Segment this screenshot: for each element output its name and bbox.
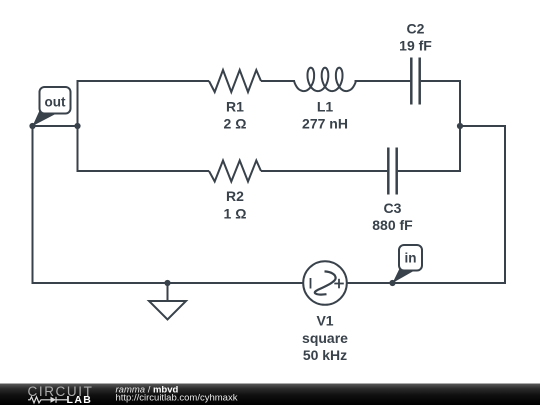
- node in junction dot: [389, 280, 395, 286]
- node out junction dot: [29, 123, 35, 129]
- svg-text:50 kHz: 50 kHz: [303, 347, 347, 363]
- svg-text:V1: V1: [316, 312, 333, 328]
- svg-text:R2: R2: [226, 188, 244, 204]
- CircuitLab logo resistor-diode glyph: [28, 397, 67, 403]
- svg-text:2 Ω: 2 Ω: [224, 116, 247, 132]
- svg-text:out: out: [45, 94, 66, 109]
- flag in: [393, 245, 423, 283]
- capacitor C2: [411, 58, 419, 105]
- capacitor C3: [388, 148, 396, 195]
- junction dot right: [457, 123, 463, 129]
- svg-text:19 fF: 19 fF: [399, 38, 432, 54]
- svg-text:C2: C2: [407, 20, 425, 36]
- voltage source V1: [303, 261, 347, 305]
- svg-text:880 fF: 880 fF: [372, 217, 413, 233]
- resistor R2: [209, 161, 261, 182]
- resistor R1: [209, 70, 261, 92]
- wire: [347, 282, 506, 284]
- svg-text:http://circuitlab.com/cyhmaxk: http://circuitlab.com/cyhmaxk: [116, 392, 238, 403]
- wire: [504, 125, 506, 284]
- wire: [261, 80, 295, 82]
- wire: [78, 80, 210, 82]
- wire: [421, 80, 461, 82]
- svg-text:R1: R1: [226, 98, 244, 114]
- svg-text:C3: C3: [384, 200, 402, 216]
- wire: [32, 126, 34, 284]
- svg-text:L1: L1: [317, 98, 334, 114]
- svg-text:277 nH: 277 nH: [302, 116, 348, 132]
- flag out: [33, 87, 71, 126]
- wire: [459, 80, 461, 172]
- svg-text:LAB: LAB: [67, 394, 93, 405]
- footer bar: [0, 384, 540, 405]
- wire: [261, 170, 387, 172]
- ground: [149, 283, 186, 320]
- wire: [33, 125, 78, 127]
- wire: [77, 80, 79, 172]
- wire: [398, 170, 461, 172]
- junction dot ground: [164, 280, 170, 286]
- svg-text:in: in: [405, 251, 417, 266]
- wire: [460, 125, 506, 127]
- inductor L1: [294, 68, 356, 91]
- wire: [32, 282, 304, 284]
- wire: [78, 170, 210, 172]
- junction dot left: [74, 123, 80, 129]
- wire: [355, 80, 411, 82]
- svg-text:square: square: [302, 330, 348, 346]
- svg-text:1 Ω: 1 Ω: [224, 205, 247, 221]
